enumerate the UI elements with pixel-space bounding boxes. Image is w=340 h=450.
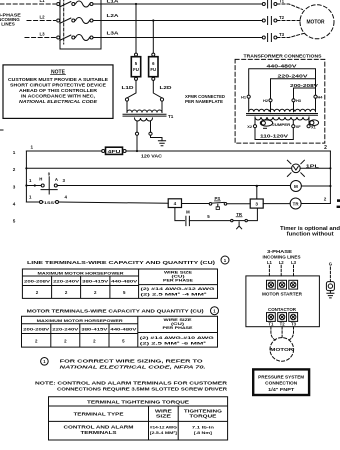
svg-text:1: 1 <box>29 178 32 183</box>
svg-text:380-415V: 380-415V <box>81 327 108 332</box>
svg-text:380-415V: 380-415V <box>82 279 109 284</box>
svg-text:2: 2 <box>324 197 327 202</box>
svg-text:L1: L1 <box>39 0 45 3</box>
starter terminal L3 <box>289 280 298 289</box>
note control and alarm terminals <box>35 381 227 392</box>
svg-text:CONNECTIONS REQUIRE 3.5MM SLOT: CONNECTIONS REQUIRE 3.5MM SLOTTED SCREW … <box>57 387 227 392</box>
svg-text:XF: XF <box>296 124 302 129</box>
svg-text:JUMPER: JUMPER <box>272 123 290 127</box>
svg-text:T3: T3 <box>291 322 297 327</box>
table 1 hp values <box>36 290 126 295</box>
bracket 110-120V <box>255 128 293 140</box>
labels T1 T2 T3 right <box>268 322 296 327</box>
timed contact TR <box>231 219 248 228</box>
wire T3 dashed to motor <box>277 34 304 38</box>
disconnect enclosure box <box>60 0 101 49</box>
junction dot rail2 left <box>25 167 27 169</box>
terminal box 3 <box>250 199 263 208</box>
svg-text:FU: FU <box>133 67 139 72</box>
junction dot rung3 <box>34 184 36 186</box>
ladder right rail <box>329 151 331 203</box>
rung 1 wire right <box>126 150 330 152</box>
disconnect pole 2 blade <box>60 18 71 23</box>
terminal H2 <box>269 99 272 102</box>
svg-text:[2.5-4 MM²]: [2.5-4 MM²] <box>150 430 178 435</box>
label 6FU <box>150 61 156 72</box>
coil M <box>290 181 301 192</box>
table 1 footnote circle 1 <box>221 256 229 264</box>
pressure switch PS <box>209 202 227 209</box>
mechanical linkage dashed line <box>63 0 65 44</box>
rung 2 wire <box>26 167 330 169</box>
disconnect pole 3 blade <box>60 35 71 40</box>
TR label underline <box>236 216 242 218</box>
transformer T1 secondary terminal right <box>150 121 152 132</box>
svg-text:220-240V: 220-240V <box>52 327 79 332</box>
svg-text:TORQUE: TORQUE <box>189 413 216 418</box>
xc core <box>247 114 318 116</box>
junction dot rail2 right <box>329 167 331 169</box>
fuse 6FU <box>149 53 158 80</box>
wire T2 dashed to motor <box>277 20 300 22</box>
contactor terminal T2 <box>278 313 287 322</box>
svg-text:H1: H1 <box>241 95 247 100</box>
terminal H4 <box>314 95 317 98</box>
svg-text:CONTACTOR: CONTACTOR <box>268 307 297 312</box>
svg-text:440-480V: 440-480V <box>267 64 297 69</box>
transformer T1 primary winding <box>127 101 162 112</box>
coil 1TR <box>290 198 301 209</box>
motor starter enclosure <box>246 276 320 327</box>
wire tap to fuse 6FU <box>152 21 154 54</box>
rung 4 wire to TR coil <box>263 203 290 205</box>
svg-text:#14-12 AWG: #14-12 AWG <box>150 425 177 430</box>
svg-text:M: M <box>186 210 190 215</box>
label 110-120V <box>258 132 290 138</box>
svg-text:PRESSURE SYSTEM: PRESSURE SYSTEM <box>258 374 304 379</box>
starter terminal L1 <box>267 280 276 289</box>
svg-text:0: 0 <box>48 172 51 177</box>
junction dot rung3 to box3 <box>256 185 258 187</box>
svg-text:2: 2 <box>65 290 68 295</box>
footnote text <box>60 359 206 370</box>
selector switch operator <box>41 177 57 194</box>
contactor terminal T1 <box>267 313 276 322</box>
svg-text:FOR CORRECT WIRE SIZING, REFER: FOR CORRECT WIRE SIZING, REFER TO <box>60 359 204 364</box>
rung 4 wire to rail <box>301 203 330 205</box>
svg-text:440-480V: 440-480V <box>111 279 138 284</box>
table 1 wire size header <box>163 269 194 282</box>
disconnect pole 3 terminal <box>57 36 60 39</box>
junction dot L2A tap <box>152 19 154 21</box>
dashed motor lead left <box>271 327 276 341</box>
svg-text:2: 2 <box>35 338 38 343</box>
svg-text:110-120V: 110-120V <box>260 133 288 138</box>
svg-text:T1: T1 <box>268 322 274 327</box>
svg-text:TERMINAL TIGHTENING TORQUE: TERMINAL TIGHTENING TORQUE <box>87 399 189 404</box>
junction dot rung1 transformer tap <box>136 150 138 152</box>
svg-text:L3: L3 <box>291 260 297 265</box>
minus mark <box>264 127 267 129</box>
jumper circle left <box>261 121 265 125</box>
svg-text:AHEAD OF THIS CONTROLLER: AHEAD OF THIS CONTROLLER <box>19 88 98 93</box>
rung 4 wire left <box>26 201 39 203</box>
svg-text:1: 1 <box>213 309 216 314</box>
switch 1SS terminal right <box>56 201 59 204</box>
svg-text:function without: function without <box>287 232 334 238</box>
svg-text:5: 5 <box>207 214 210 219</box>
svg-text:NATIONAL ELECTRICAL CODE, NFPA: NATIONAL ELECTRICAL CODE, NFPA 70. <box>60 365 206 370</box>
jumper circle right <box>310 121 314 125</box>
terminal H1 <box>247 95 250 98</box>
right edge cut text <box>337 199 340 202</box>
svg-text:4FU: 4FU <box>108 149 121 154</box>
dashed lead L2 <box>280 265 282 276</box>
branch wire up to box3 <box>247 208 257 221</box>
node L3 incoming dashed wire <box>25 37 56 39</box>
disconnect pole 1 blade <box>60 2 71 7</box>
svg-text:200-208V: 200-208V <box>24 279 51 284</box>
rung 4 wire to box3 <box>227 203 250 205</box>
svg-text:X2: X2 <box>247 124 253 129</box>
left edge tick <box>0 129 3 131</box>
transformer T1 primary terminal left <box>125 98 128 101</box>
svg-text:TR: TR <box>236 212 243 217</box>
breaker squiggle pole 1 <box>76 1 90 7</box>
label XFMR CONNECTED PER NAMEPLATE <box>185 94 225 104</box>
contactor M contact T3 <box>262 34 277 42</box>
svg-text:3: 3 <box>63 178 66 183</box>
svg-text:NATIONAL ELECTRICAL CODE: NATIONAL ELECTRICAL CODE <box>19 99 97 104</box>
svg-text:2: 2 <box>94 290 97 295</box>
svg-text:4: 4 <box>13 201 16 206</box>
svg-text:L2: L2 <box>39 15 45 20</box>
svg-text:SHORT CIRCUIT PROTECTIVE DEVIC: SHORT CIRCUIT PROTECTIVE DEVICE <box>10 83 106 88</box>
svg-text:L2: L2 <box>279 260 285 265</box>
svg-text:LINE TERMINALS-WIRE CAPACITY A: LINE TERMINALS-WIRE CAPACITY AND QUANTIT… <box>27 260 216 265</box>
dashed lead G <box>329 267 331 281</box>
disconnect pole 1 out terminal <box>90 3 93 6</box>
svg-text:CONTROL AND ALARM: CONTROL AND ALARM <box>64 425 135 430</box>
label 5FU <box>133 61 139 72</box>
svg-text:5: 5 <box>122 338 125 343</box>
rung 4 wire to box4 <box>59 202 169 203</box>
jumper oval left <box>260 120 272 126</box>
rung 1 wire left <box>26 150 101 152</box>
table 2 hp values <box>35 338 125 343</box>
svg-text:6: 6 <box>152 61 155 66</box>
svg-text:440-480V: 440-480V <box>110 327 137 332</box>
svg-text:NOTE: CONTROL AND ALARM TERMI: NOTE: CONTROL AND ALARM TERMINALS FOR CU… <box>35 381 227 386</box>
wire secondary right to ground <box>151 135 163 141</box>
svg-text:L2D: L2D <box>160 85 172 90</box>
table 2 grid <box>22 316 218 347</box>
bracket 220-240V <box>271 79 316 99</box>
rung 4 wire to PS <box>182 203 210 205</box>
svg-text:1: 1 <box>13 150 16 155</box>
svg-text:TRANSFORMER CONNECTIONS: TRANSFORMER CONNECTIONS <box>244 54 322 59</box>
terminal X1 <box>308 117 310 125</box>
terminal H3 <box>292 99 295 102</box>
wire pole2 to contact <box>93 20 262 22</box>
svg-text:MOTOR STARTER: MOTOR STARTER <box>262 292 303 297</box>
wire 6FU to T1 primary <box>153 80 162 98</box>
svg-text:T2: T2 <box>279 15 285 20</box>
svg-text:1SS: 1SS <box>44 200 54 205</box>
transformer connections dashed box <box>235 59 325 143</box>
svg-text:TERMINAL TYPE: TERMINAL TYPE <box>74 412 124 417</box>
svg-text:2: 2 <box>64 338 67 343</box>
pilot light 1PL <box>292 164 301 173</box>
svg-text:1PL: 1PL <box>306 163 319 168</box>
timer note text <box>280 226 340 238</box>
note box (customer short circuit) <box>3 65 113 119</box>
disconnect pole 1 terminal <box>57 3 60 6</box>
svg-text:L2A: L2A <box>107 13 120 18</box>
branch wire 5 <box>189 220 230 222</box>
svg-text:T2: T2 <box>280 322 286 327</box>
svg-text:1: 1 <box>29 195 32 200</box>
wire pole1 to contact <box>90 3 262 5</box>
svg-text:2: 2 <box>324 145 327 151</box>
disconnect pole 2 out terminal <box>90 19 93 22</box>
contactor terminal T3 <box>289 313 298 322</box>
selector switch HOA contact A <box>54 184 57 187</box>
breaker squiggle pole 3 <box>76 35 90 41</box>
svg-text:TR: TR <box>293 201 300 206</box>
table 2 voltage headers <box>23 327 137 332</box>
disconnect pole 2 terminal <box>57 19 60 22</box>
svg-text:L1: L1 <box>267 260 273 265</box>
label 3-PHASE INCOMING LINES <box>0 13 21 27</box>
svg-text:5: 5 <box>135 61 138 66</box>
svg-text:4: 4 <box>174 201 177 206</box>
svg-text:4: 4 <box>65 195 68 200</box>
terminal box 4 <box>168 199 181 208</box>
node L2 incoming dashed wire <box>27 20 56 22</box>
table 2 wire size header <box>163 317 194 330</box>
svg-text:3: 3 <box>255 202 258 207</box>
disconnect pole 3 mid terminal <box>72 36 75 39</box>
label 3-PHASE INCOMING LINES (right) <box>263 249 301 259</box>
xc secondary winding <box>255 117 309 120</box>
wire pole3 to contact <box>93 37 262 39</box>
svg-text:X1: X1 <box>311 124 317 129</box>
dashed motor lead right <box>288 327 294 341</box>
rung 3 wire to rail <box>301 185 330 187</box>
table 1 wire size values <box>141 286 215 296</box>
svg-text:(2) #14 AWG-#12 AWG: (2) #14 AWG-#12 AWG <box>141 286 215 291</box>
svg-text:1/4" FNPT: 1/4" FNPT <box>268 387 294 392</box>
dashed lead L1 <box>268 265 270 276</box>
transformer T1 core <box>123 114 166 116</box>
svg-text:PER PHASE: PER PHASE <box>163 325 194 330</box>
svg-text:[.8 Nm]: [.8 Nm] <box>194 430 213 435</box>
transformer T1 secondary winding <box>135 118 153 121</box>
svg-text:MOTOR TERMINALS-WIRE CAPACITY: MOTOR TERMINALS-WIRE CAPACITY AND QUANTI… <box>27 309 205 314</box>
svg-text:M: M <box>294 184 298 189</box>
svg-text:A: A <box>55 177 58 182</box>
table 3 data row <box>64 425 215 435</box>
svg-text:220-240V: 220-240V <box>278 74 308 79</box>
svg-text:MOTOR: MOTOR <box>307 20 325 26</box>
branch wire down from box4 <box>175 208 185 221</box>
selector switch HOA contact H <box>41 184 44 187</box>
wire 5FU to T1 primary <box>127 80 136 98</box>
svg-text:MAXIMUM MOTOR HORSEPOWER: MAXIMUM MOTOR HORSEPOWER <box>38 270 124 275</box>
aux contact M <box>186 216 190 225</box>
pressure system text <box>258 374 304 391</box>
wire rung3 down to box3 <box>256 186 258 199</box>
svg-text:(2) #14 AWG-#10 AWG: (2) #14 AWG-#10 AWG <box>140 335 214 340</box>
starter terminal L2 <box>278 280 287 289</box>
note box text <box>8 77 108 104</box>
bracket 200-208V <box>294 88 316 99</box>
svg-text:L1D: L1D <box>122 85 134 90</box>
svg-text:2: 2 <box>93 338 96 343</box>
ground (right column) <box>327 291 334 298</box>
NOTE underline <box>51 74 66 76</box>
transformer T1 primary terminal right <box>160 98 163 101</box>
svg-text:IN ACCORDANCE WITH NEC,: IN ACCORDANCE WITH NEC, <box>21 94 95 99</box>
svg-text:1: 1 <box>43 359 46 364</box>
svg-text:(2) 2.5 MM² -4 MM²: (2) 2.5 MM² -4 MM² <box>141 292 208 297</box>
svg-text:CUSTOMER MUST PROVIDE A SUITAB: CUSTOMER MUST PROVIDE A SUITABLE <box>8 77 108 82</box>
svg-text:2: 2 <box>13 167 16 172</box>
PS label underline <box>214 200 220 202</box>
junction dot L1A tap <box>135 3 137 5</box>
junction dot rail3 right <box>329 185 331 187</box>
dashed motor lead mid <box>281 327 283 338</box>
svg-text:L1A: L1A <box>107 0 120 4</box>
svg-text:G: G <box>329 261 333 266</box>
dashed lead L3 <box>293 265 295 276</box>
control fuse 4FU <box>102 147 126 154</box>
svg-text:1: 1 <box>31 145 34 150</box>
svg-text:1: 1 <box>224 258 227 263</box>
label 1SS <box>44 199 55 205</box>
svg-text:5: 5 <box>13 218 16 223</box>
table 1 grid <box>22 269 217 298</box>
pilot light filament <box>294 167 299 170</box>
contactor M contact T1 <box>262 0 277 8</box>
svg-text:PER NAMEPLATE: PER NAMEPLATE <box>185 99 223 104</box>
svg-text:PER PHASE: PER PHASE <box>163 278 194 283</box>
svg-text:L3: L3 <box>39 32 45 37</box>
svg-text:5: 5 <box>123 290 126 295</box>
fuse 5FU <box>131 53 140 80</box>
switch 1SS wire <box>43 201 56 203</box>
svg-text:T1: T1 <box>168 114 174 119</box>
svg-text:3: 3 <box>13 184 16 189</box>
svg-text:MOTOR: MOTOR <box>270 347 294 352</box>
svg-text:T3: T3 <box>279 32 285 37</box>
disconnect pole 3 out terminal <box>90 36 93 39</box>
xc primary winding <box>249 98 316 112</box>
svg-text:PS: PS <box>215 196 221 201</box>
svg-text:H3: H3 <box>296 98 302 103</box>
svg-text:SIZE: SIZE <box>156 413 171 418</box>
ground terminal G <box>326 282 334 291</box>
terminal X2 <box>254 117 256 125</box>
wire tap to fuse 5FU <box>135 4 137 53</box>
table 3 headers <box>74 408 222 418</box>
disconnect pole 2 mid terminal <box>72 19 75 22</box>
svg-text:L3A: L3A <box>107 31 120 36</box>
svg-text:T1: T1 <box>279 0 285 4</box>
svg-text:120 VAC: 120 VAC <box>141 154 163 159</box>
pilot light rays <box>287 160 304 176</box>
wire T1 dashed to motor <box>277 4 303 10</box>
motor (top right) dashed circle <box>300 5 334 39</box>
svg-text:TERMINALS: TERMINALS <box>81 430 117 435</box>
breaker squiggle pole 2 <box>76 18 90 24</box>
junction dot rail3 left <box>25 184 27 186</box>
svg-text:(2) 2.5 MM² -6 MM²: (2) 2.5 MM² -6 MM² <box>140 340 207 345</box>
svg-text:7.1 lb-in: 7.1 lb-in <box>192 425 215 430</box>
svg-text:200-208V: 200-208V <box>23 327 50 332</box>
svg-text:INCOMING LINES: INCOMING LINES <box>263 254 301 259</box>
switch 1SS terminal left <box>40 201 43 204</box>
svg-text:200-208V: 200-208V <box>290 83 318 88</box>
svg-text:LINES: LINES <box>1 21 15 26</box>
svg-text:220-240V: 220-240V <box>53 279 80 284</box>
svg-text:CONNECTION: CONNECTION <box>265 381 297 386</box>
pressure system box <box>253 369 309 395</box>
terminal XF <box>292 120 294 125</box>
table 3 grid <box>49 397 228 440</box>
disconnect pole 1 mid terminal <box>72 3 75 6</box>
svg-text:MAXIMUM MOTOR HORSEPOWER: MAXIMUM MOTOR HORSEPOWER <box>37 318 123 323</box>
ground (T1 secondary) <box>158 141 165 146</box>
ladder left rail <box>25 151 27 202</box>
svg-text:H4: H4 <box>318 95 324 100</box>
rung 3 wire left <box>26 185 41 187</box>
svg-text:FU: FU <box>150 67 156 72</box>
svg-text:H: H <box>39 176 42 181</box>
table 2 footnote circle 1 <box>211 307 219 315</box>
svg-text:H2: H2 <box>263 98 269 103</box>
node L1 incoming dashed wire <box>0 3 56 5</box>
table 1 voltage headers <box>24 279 138 284</box>
contactor M contact T2 <box>262 17 277 25</box>
svg-text:2: 2 <box>36 290 39 295</box>
footnote circle 1 <box>41 358 49 366</box>
jumper oval right <box>309 120 318 126</box>
table 2 wire size values <box>140 335 214 345</box>
bracket 440-480V <box>249 69 316 95</box>
motor (bottom) dashed circle <box>270 338 294 362</box>
wire secondary left down to rung 1 <box>136 135 138 150</box>
transformer T1 secondary terminal left <box>136 121 138 132</box>
rung 3 wire right <box>57 185 290 187</box>
